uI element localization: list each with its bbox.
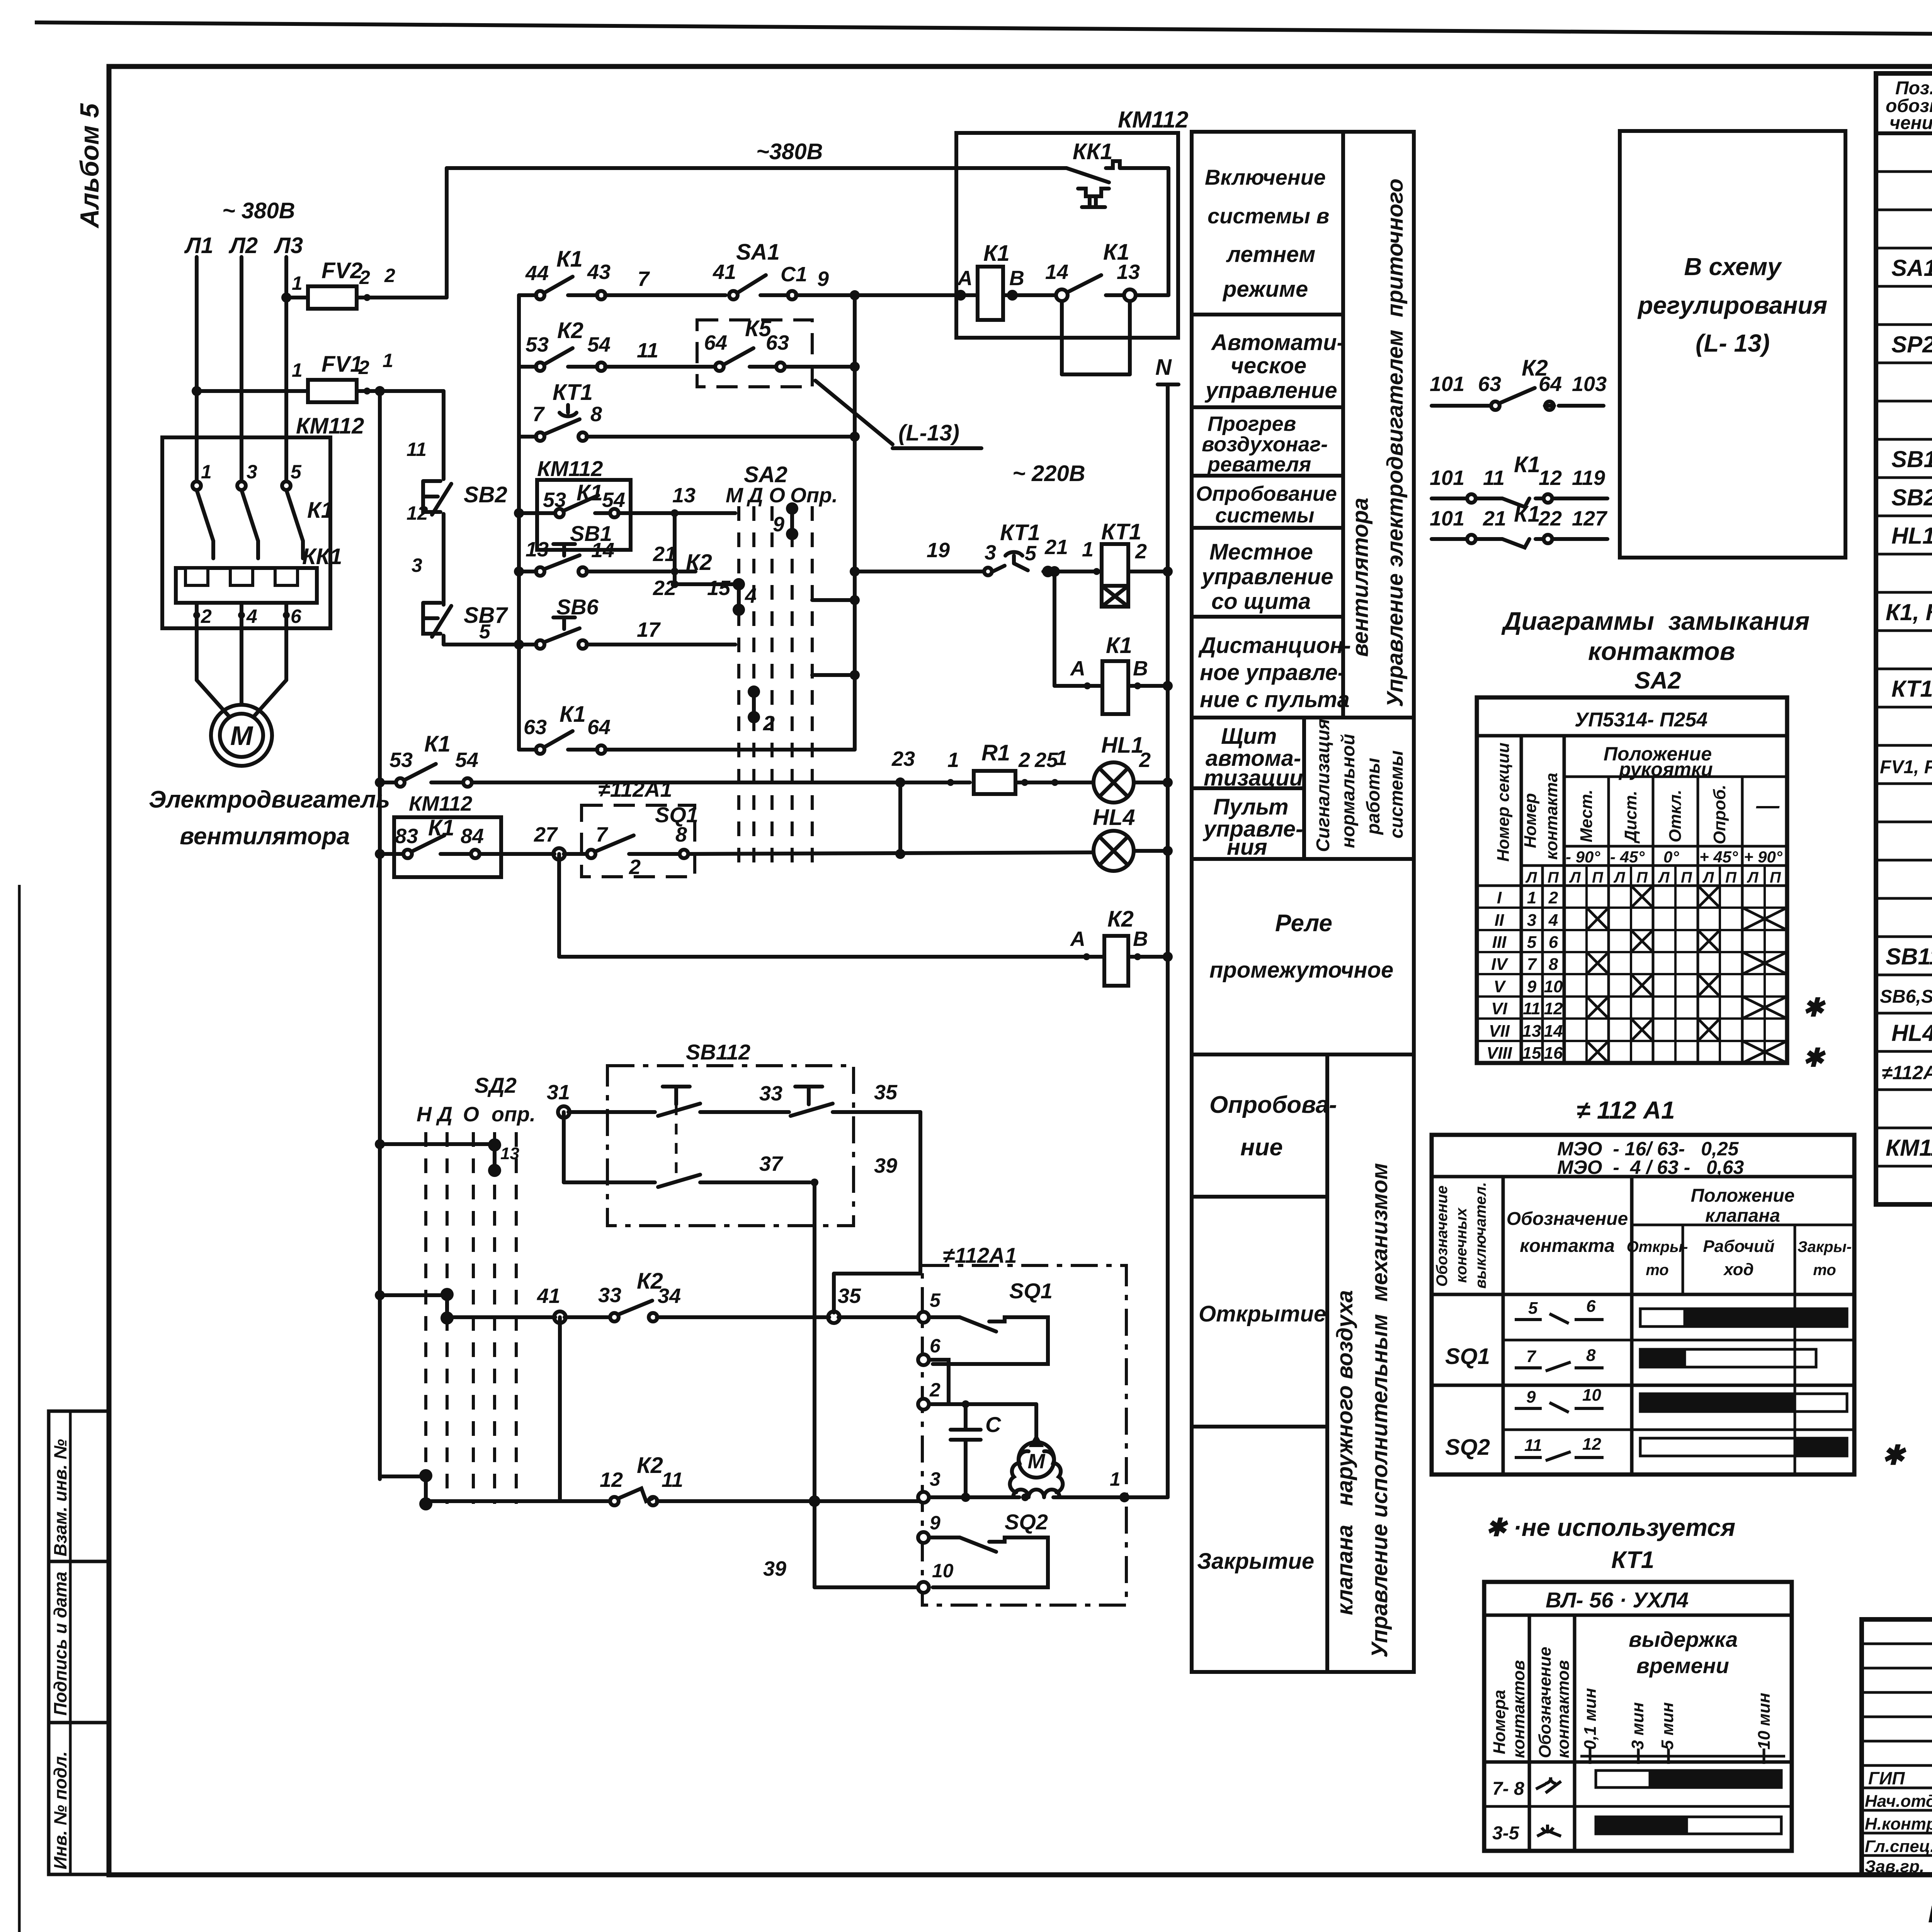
svg-text:53: 53 [543,488,566,512]
svg-text:6: 6 [291,605,302,627]
svg-text:25: 25 [1034,748,1058,772]
svg-text:М: М [230,721,253,751]
svg-text:21: 21 [653,543,676,566]
svg-text:Зав.гр.: Зав.гр. [1865,1857,1924,1876]
svg-text:SB1: SB1 [1891,446,1932,472]
svg-text:конечных: конечных [1453,1207,1470,1283]
svg-text:Номера: Номера [1490,1690,1509,1754]
svg-text:101: 101 [1430,507,1464,530]
svg-text:III: III [1492,933,1507,952]
svg-text:К1: К1 [1514,502,1540,527]
svg-text:54: 54 [587,333,611,356]
svg-text:В: В [1133,927,1148,951]
svg-text:7: 7 [1526,1347,1537,1366]
svg-text:- 45°: - 45° [1610,848,1645,866]
svg-text:VII: VII [1489,1022,1510,1041]
svg-text:9: 9 [930,1512,940,1534]
svg-text:✱ ·не используется: ✱ ·не используется [1486,1514,1735,1541]
svg-text:ния: ния [1227,835,1267,860]
svg-text:2: 2 [929,1379,940,1401]
svg-text:+ 45°: + 45° [1699,848,1738,866]
svg-text:53: 53 [389,748,413,772]
svg-text:11: 11 [406,439,427,460]
svg-text:✱: ✱ [1803,1043,1826,1072]
svg-text:13: 13 [672,484,696,507]
svg-text:Л: Л [1747,869,1759,886]
svg-text:SB2: SB2 [464,482,507,507]
svg-text:управление: управление [1201,564,1333,589]
svg-text:К2: К2 [1107,906,1134,932]
svg-text:14: 14 [1544,1022,1563,1041]
svg-text:5: 5 [1528,1299,1538,1318]
svg-text:7: 7 [532,403,545,426]
svg-text:2: 2 [1139,748,1151,772]
svg-text:13: 13 [1117,260,1140,284]
svg-text:промежуточное: промежуточное [1209,957,1393,983]
svg-text:5: 5 [479,621,491,643]
svg-text:Закры-: Закры- [1798,1238,1852,1255]
svg-text:КМ112: КМ112 [537,456,603,481]
svg-text:Откл.: Откл. [1666,790,1685,842]
svg-text:HL4: HL4 [1891,1020,1932,1046]
svg-text:11: 11 [1523,999,1541,1018]
svg-text:режиме: режиме [1222,277,1308,302]
svg-text:83: 83 [395,825,418,848]
svg-text:Л: Л [1613,869,1626,886]
svg-text:9: 9 [773,513,784,536]
svg-text:Д: Д [747,484,763,507]
svg-text:Опр.: Опр. [790,484,838,507]
svg-text:10: 10 [1544,977,1563,996]
svg-text:О: О [463,1103,479,1126]
svg-text:регулирования: регулирования [1637,291,1827,319]
svg-text:3-5: 3-5 [1492,1823,1520,1844]
svg-text:(L-13): (L-13) [898,420,959,446]
svg-text:Открытие: Открытие [1199,1301,1326,1327]
svg-text:Мест.: Мест. [1577,789,1596,842]
svg-text:Н.контр.: Н.контр. [1865,1815,1932,1833]
svg-text:R1: R1 [981,740,1010,765]
svg-text:≠ 112 А1: ≠ 112 А1 [1577,1096,1675,1124]
svg-text:выдержка: выдержка [1629,1627,1738,1651]
svg-text:Взам. инв. №: Взам. инв. № [50,1439,70,1556]
svg-text:54: 54 [455,748,478,772]
svg-text:Сигнализация: Сигнализация [1313,719,1333,852]
svg-text:3: 3 [412,554,422,576]
svg-text:10: 10 [1582,1386,1601,1405]
svg-text:35: 35 [838,1284,861,1308]
svg-text:К1: К1 [983,241,1010,266]
svg-text:ГИП: ГИП [1868,1768,1905,1788]
svg-text:Пульт: Пульт [1213,794,1289,820]
svg-text:управление: управление [1204,378,1337,403]
svg-text:27: 27 [534,823,558,846]
svg-text:1: 1 [201,461,212,483]
svg-text:ход: ход [1723,1260,1753,1279]
svg-text:5: 5 [1025,542,1037,565]
svg-text:Л: Л [1569,869,1581,886]
svg-text:~ 220В: ~ 220В [1012,461,1085,486]
svg-text:43: 43 [587,260,611,284]
svg-text:системы: системы [1386,750,1407,838]
svg-text:П: П [1681,869,1692,886]
svg-text:Прогрев: Прогрев [1207,412,1296,435]
svg-text:2: 2 [1135,540,1147,563]
svg-text:127: 127 [1572,507,1608,530]
svg-text:16: 16 [1544,1044,1563,1063]
svg-text:МЭО - 4 / 63 - 0,63: МЭО - 4 / 63 - 0,63 [1557,1156,1744,1178]
svg-text:13: 13 [1522,1022,1541,1041]
svg-text:Опробование: Опробование [1196,482,1337,505]
svg-text:5: 5 [291,461,302,483]
svg-text:~ 380В: ~ 380В [222,198,295,223]
svg-text:ВЛ- 56 · УХЛ4: ВЛ- 56 · УХЛ4 [1546,1588,1689,1612]
svg-text:системы: системы [1215,504,1314,527]
svg-text:≠112А1: ≠112А1 [943,1243,1017,1267]
svg-text:103: 103 [1572,372,1607,396]
svg-text:3: 3 [1527,911,1536,930]
svg-text:SQ2: SQ2 [1445,1435,1490,1460]
svg-text:+ 90°: + 90° [1744,848,1783,866]
svg-text:ное управле-: ное управле- [1200,660,1345,685]
svg-text:Включение: Включение [1205,165,1326,189]
svg-text:11: 11 [662,1468,683,1492]
svg-text:SA2: SA2 [1634,667,1681,694]
svg-text:HL1: HL1 [1101,733,1144,758]
svg-text:SД2: SД2 [474,1073,517,1097]
svg-text:5: 5 [1527,933,1537,952]
svg-text:21: 21 [1044,536,1068,559]
svg-text:Л2: Л2 [228,233,258,258]
svg-text:5: 5 [930,1289,941,1311]
svg-text:Д: Д [436,1103,452,1126]
svg-text:—: — [1756,793,1780,818]
svg-text:Н: Н [417,1103,432,1126]
svg-text:IV: IV [1491,955,1509,974]
svg-text:54: 54 [602,488,625,512]
svg-text:VI: VI [1491,999,1507,1018]
svg-text:4: 4 [745,584,757,607]
svg-text:SQ1: SQ1 [1009,1279,1053,1303]
svg-text:15: 15 [1522,1044,1541,1063]
svg-text:Обозначение: Обозначение [1536,1647,1554,1758]
svg-text:8: 8 [1549,955,1558,974]
svg-text:Нач.отд.: Нач.отд. [1865,1792,1932,1811]
svg-text:39: 39 [763,1557,786,1580]
svg-text:Закрытие: Закрытие [1197,1549,1314,1574]
svg-text:КТ1: КТ1 [1611,1547,1654,1573]
svg-text:SB6,SB7: SB6,SB7 [1880,986,1932,1007]
svg-text:SA1: SA1 [736,240,780,265]
svg-text:системы в: системы в [1207,204,1329,228]
svg-text:Л3: Л3 [274,233,303,258]
svg-text:FV1: FV1 [321,352,362,377]
svg-text:Управление исполнительным мех: Управление исполнительным механизмом [1367,1163,1392,1658]
svg-text:23: 23 [891,747,915,770]
svg-text:3: 3 [985,541,996,564]
svg-text:✱: ✱ [1882,1440,1906,1470]
svg-text:22: 22 [653,577,676,600]
svg-text:КМ112: КМ112 [409,792,472,815]
svg-text:работы: работы [1363,758,1384,835]
svg-text:Рабочий: Рабочий [1703,1237,1774,1256]
svg-text:Гл.спец.: Гл.спец. [1865,1837,1932,1856]
svg-text:✱: ✱ [1803,993,1826,1022]
svg-text:9: 9 [1526,1388,1536,1406]
svg-text:контакта: контакта [1520,1236,1615,1256]
svg-text:10: 10 [932,1560,954,1582]
svg-text:К1: К1 [1514,452,1540,477]
svg-text:3: 3 [930,1468,940,1490]
svg-text:33: 33 [759,1082,782,1105]
svg-text:12: 12 [1539,466,1562,490]
svg-text:63: 63 [766,331,789,354]
svg-text:воздухонаг-: воздухонаг- [1202,433,1328,456]
svg-text:2: 2 [201,605,212,627]
svg-text:6: 6 [930,1335,941,1357]
svg-text:6: 6 [1586,1297,1596,1316]
svg-text:летнем: летнем [1226,242,1315,267]
svg-text:1: 1 [383,350,393,371]
svg-text:~380В: ~380В [756,139,823,164]
svg-text:101: 101 [1430,372,1464,396]
svg-text:Номер секции: Номер секции [1494,743,1513,862]
svg-text:39: 39 [874,1154,897,1177]
svg-text:Л: Л [1702,869,1714,886]
svg-text:Диаграммы замыкания: Диаграммы замыкания [1501,607,1810,635]
svg-text:4: 4 [246,605,257,627]
svg-text:А: А [957,267,973,290]
svg-text:контактов: контактов [1554,1660,1573,1758]
svg-text:К1: К1 [424,731,451,757]
svg-text:(L- 13): (L- 13) [1696,329,1770,357]
svg-text:Реле: Реле [1275,910,1332,937]
svg-text:тизации: тизации [1204,765,1303,791]
svg-text:Щит: Щит [1221,724,1277,749]
svg-text:11: 11 [637,339,658,362]
svg-text:7: 7 [638,267,650,291]
svg-text:Откры-: Откры- [1627,1238,1688,1255]
svg-text:31: 31 [547,1081,570,1104]
svg-text:8: 8 [1586,1346,1596,1365]
svg-text:К1: К1 [577,480,603,505]
svg-text:FV1, FV2: FV1, FV2 [1880,757,1932,777]
svg-text:С1: С1 [781,263,807,286]
svg-text:КМ112: КМ112 [1886,1135,1932,1161]
svg-text:33: 33 [598,1284,621,1307]
svg-text:4: 4 [1548,911,1558,930]
svg-text:9: 9 [1527,977,1537,996]
svg-text:П: П [1592,869,1604,886]
svg-text:Альбом 5: Альбом 5 [75,103,104,229]
svg-text:Обозначение: Обозначение [1434,1185,1451,1287]
svg-text:1: 1 [1527,888,1536,907]
svg-text:N: N [1155,355,1172,380]
svg-text:41: 41 [713,260,736,284]
svg-text:II: II [1495,911,1504,930]
svg-text:3 мин: 3 мин [1628,1702,1647,1750]
svg-text:14: 14 [591,539,614,562]
svg-text:П: П [1770,869,1781,886]
svg-text:со щита: со щита [1211,589,1311,614]
svg-text:V: V [1493,977,1506,996]
svg-text:нормальной: нормальной [1338,734,1359,848]
svg-text:HL4: HL4 [1093,805,1135,830]
svg-text:Номер: Номер [1521,793,1540,848]
svg-text:64: 64 [1539,372,1562,396]
svg-text:Л: Л [1525,869,1537,886]
svg-text:Дист.: Дист. [1621,791,1640,844]
svg-text:11: 11 [1483,466,1505,490]
svg-text:3: 3 [247,461,257,483]
svg-text:37: 37 [759,1152,784,1175]
svg-text:К1: К1 [428,815,454,840]
svg-text:то: то [1813,1262,1836,1279]
svg-text:53: 53 [526,333,549,356]
svg-text:К2: К2 [557,318,583,343]
svg-text:чение: чение [1889,113,1932,133]
svg-text:7: 7 [1527,955,1537,974]
svg-text:11: 11 [1524,1436,1542,1455]
svg-text:63: 63 [1478,372,1501,396]
svg-text:SB6: SB6 [556,595,599,619]
svg-text:15: 15 [707,577,731,600]
svg-text:SQ1: SQ1 [1445,1344,1490,1369]
svg-text:2: 2 [629,855,641,879]
svg-text:Опробова-: Опробова- [1209,1092,1337,1118]
svg-text:63: 63 [524,716,547,739]
svg-text:I: I [1497,888,1502,907]
svg-text:84: 84 [461,825,484,848]
svg-text:вентилятора: вентилятора [180,823,350,850]
svg-text:О: О [769,484,785,507]
svg-text:7: 7 [596,823,609,846]
svg-text:1: 1 [1056,747,1067,770]
svg-text:рукоятки: рукоятки [1618,759,1713,780]
svg-text:Опроб.: Опроб. [1710,785,1729,844]
svg-text:8: 8 [590,403,602,426]
svg-text:SA1: SA1 [1891,255,1932,281]
svg-text:П: П [1725,869,1737,886]
svg-text:вентилятора: вентилятора [1348,498,1373,657]
svg-text:≠112А1: ≠112А1 [598,777,672,801]
svg-text:34: 34 [658,1284,681,1308]
svg-text:10 мин: 10 мин [1755,1693,1774,1750]
svg-text:Автомати-: Автомати- [1211,330,1344,355]
svg-text:FV2: FV2 [321,258,362,283]
svg-text:19: 19 [927,539,950,562]
svg-text:К1: К1 [560,702,586,727]
svg-text:К1: К1 [1106,633,1132,658]
svg-text:Л: Л [1658,869,1670,886]
svg-text:64: 64 [587,716,611,739]
svg-text:8: 8 [675,823,687,846]
svg-text:SB112: SB112 [1886,944,1932,969]
svg-text:VIII: VIII [1486,1044,1512,1063]
svg-text:2: 2 [1548,888,1558,907]
svg-text:П: П [1636,869,1648,886]
svg-text:119: 119 [1572,466,1605,490]
svg-text:КТ1: КТ1 [1891,676,1932,702]
svg-text:1: 1 [1082,538,1094,561]
svg-text:12: 12 [1582,1435,1601,1454]
svg-text:- 90°: - 90° [1566,848,1600,866]
svg-text:КТ1: КТ1 [553,380,593,405]
svg-text:64: 64 [704,331,727,354]
svg-text:М: М [726,484,743,507]
svg-text:ревателя: ревателя [1207,453,1311,476]
svg-text:1: 1 [1110,1468,1121,1490]
svg-text:контакта: контакта [1542,773,1561,860]
svg-text:Электродвигатель: Электродвигатель [149,786,390,813]
svg-text:2: 2 [1018,748,1030,772]
svg-text:КК1: КК1 [1073,139,1113,164]
svg-text:17: 17 [637,618,661,641]
svg-text:Дистанцион-: Дистанцион- [1198,633,1351,658]
svg-text:Л1: Л1 [184,233,213,258]
svg-text:13: 13 [526,538,549,561]
svg-text:В: В [1009,267,1024,290]
svg-text:0°: 0° [1663,848,1679,866]
svg-text:SP2: SP2 [1891,332,1932,357]
svg-text:1: 1 [947,748,959,772]
svg-text:контактов: контактов [1588,637,1735,665]
svg-text:Подпись и дата: Подпись и дата [50,1571,70,1716]
svg-text:2: 2 [384,265,395,286]
svg-text:SB112: SB112 [686,1040,750,1064]
svg-text:35: 35 [874,1081,898,1104]
svg-text:времени: времени [1636,1653,1729,1678]
svg-text:1: 1 [292,272,303,294]
svg-text:А: А [1070,657,1085,680]
svg-text:21: 21 [1483,507,1506,530]
svg-text:клапана: клапана [1705,1206,1780,1226]
svg-text:К2: К2 [637,1453,663,1478]
svg-text:7- 8: 7- 8 [1492,1779,1524,1799]
svg-text:12: 12 [600,1468,623,1492]
svg-text:Обозначение: Обозначение [1507,1209,1628,1229]
svg-text:В схему: В схему [1684,253,1782,281]
svg-text:2: 2 [763,712,775,735]
svg-text:ческое: ческое [1231,353,1306,378]
svg-text:22: 22 [1538,507,1562,530]
svg-text:9: 9 [817,267,829,291]
svg-text:опр.: опр. [492,1103,536,1126]
svg-text:101: 101 [1430,466,1464,490]
svg-text:то: то [1646,1262,1668,1279]
svg-text:ние с пульта: ние с пульта [1200,687,1350,712]
svg-text:SQ2: SQ2 [1005,1510,1048,1534]
svg-text:КМ112: КМ112 [296,413,364,439]
svg-text:Положение: Положение [1691,1185,1795,1206]
svg-text:М: М [1028,1450,1046,1473]
svg-text:Инв. № подл.: Инв. № подл. [50,1751,70,1869]
svg-text:КМ112: КМ112 [1118,107,1189,133]
svg-text:К1, К2: К1, К2 [1886,599,1932,625]
svg-text:ние: ние [1240,1134,1283,1161]
svg-text:Копировал: Копировал [1928,1901,1932,1928]
svg-text:6: 6 [1549,933,1558,952]
svg-text:41: 41 [537,1284,560,1308]
svg-text:SB2: SB2 [1891,485,1932,510]
svg-text:выключател.: выключател. [1472,1182,1489,1289]
svg-text:0,1 мин: 0,1 мин [1581,1688,1600,1750]
svg-text:Управление электродвигателем: Управление электродвигателем приточного [1383,179,1408,707]
svg-text:К1: К1 [556,247,583,272]
svg-text:А: А [1070,927,1085,951]
svg-text:14: 14 [1045,260,1068,284]
svg-text:П: П [1548,869,1559,886]
